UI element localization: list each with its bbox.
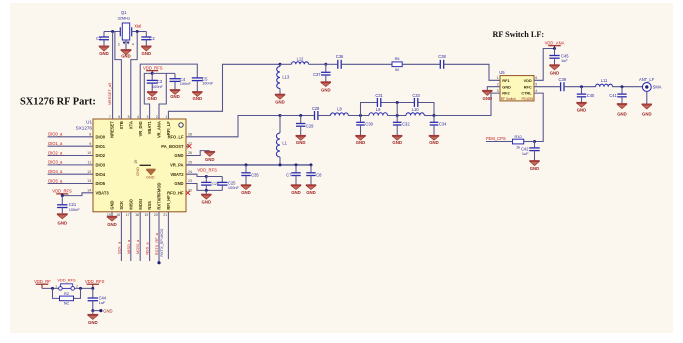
svg-text:C1: C1 [96,36,102,41]
ground for C5 [192,92,202,101]
ground for C7 [291,185,301,195]
ground for C29 [296,136,306,145]
capacitor C21 100nF [57,196,67,214]
wire VBAT3 pin14 [62,193,93,196]
svg-text:1k: 1k [516,145,520,150]
resistor R6 50 ohm [392,62,402,67]
pi filter top rail [361,103,435,116]
value 1uF of C42 [522,151,529,156]
capacitor C25 100nF parallel [206,177,227,191]
inductor L1 choke to VR_PA [276,116,280,166]
svg-text:VR_ANA: VR_ANA [157,121,162,138]
svg-text:17: 17 [126,213,130,217]
wire C36 to R6 [341,63,392,65]
capacitor C37 shunt [321,64,331,82]
svg-text:DIO5_a: DIO5_a [48,178,63,183]
svg-text:SX1276 RF Part:: SX1276 RF Part: [20,97,96,108]
svg-text:18: 18 [135,213,139,217]
svg-text:VR_DIG: VR_DIG [138,121,143,136]
svg-text:RF Switch: RF Switch [501,97,516,101]
ground for C3 [147,92,157,101]
designator L10 [412,107,420,112]
U1 exposed pad pin 29 GND [134,160,155,180]
wire L1 junction to C29 [280,115,315,117]
svg-text:DIO3: DIO3 [96,162,106,167]
net label DIO5_a wire [48,178,93,183]
net label DIO3_a wire [48,160,93,165]
svg-text:100nF: 100nF [69,207,81,212]
svg-text:21: 21 [163,213,167,217]
value 100nF of C3 [152,84,164,89]
svg-text:GND: GND [58,220,68,225]
svg-text:1: 1 [55,284,57,288]
U1 bottom pin names [110,182,171,209]
connector ANT_LF SMA [642,83,651,92]
value 100nF of C5 [202,80,214,85]
wire C38 to RF switch RF1 [444,64,500,80]
ground for GND pin15 [107,212,117,227]
designator C40 [587,93,595,98]
designator C4 [180,77,186,82]
designator C3 [157,79,163,84]
resistor R10 1k [503,139,535,144]
node decoupling ground junction [205,189,208,192]
node C21 junction [61,194,64,197]
capacitor C29 shunt [296,116,305,136]
svg-text:RFI_LF: RFI_LF [166,121,171,135]
node C35 junction [245,163,248,166]
wire VDD pin6 to VDD_ANA [534,49,555,81]
capacitor C26 100nF [201,177,211,191]
wire RFC pin5 to C39 [534,86,561,88]
value 32MHz [117,15,130,20]
wire VR_ANA pin2 jog up to rail [159,73,166,119]
svg-text:C33: C33 [412,93,420,98]
jumper pin numbers 1 2 [55,284,78,288]
U1 top pin names [110,120,171,138]
ground for C35 [241,185,251,195]
ground for C45 [549,65,559,75]
svg-text:L12: L12 [297,57,305,62]
wire MOSI pin18 [139,212,141,261]
svg-text:GND: GND [107,222,117,227]
capacitor C34 shunt [430,116,439,136]
svg-text:GND: GND [88,320,98,325]
wire crystal right to C2 [132,31,147,33]
svg-text:VDD: VDD [523,78,531,83]
svg-text:26: 26 [188,151,192,155]
designator Q1 [121,10,127,15]
svg-text:23: 23 [188,179,192,183]
designator L13 [282,75,290,80]
resistor R2 NC parallel [53,288,81,300]
port RXTX_SP-MOD rotated [159,229,164,257]
svg-text:ANT_LF: ANT_LF [639,77,655,82]
svg-text:C7: C7 [286,173,292,178]
power port VDD_RF [34,279,51,288]
svg-text:GND: GND [642,112,652,117]
no connect X on RFO_HF pin22 [186,191,190,195]
svg-text:GND: GND [170,94,180,99]
ground for C42 [529,161,539,171]
wire jumper to VDD_RFS node [75,287,93,289]
net label RXTX_RF_a rotated [154,232,159,255]
net label SCK_a rotated [116,241,121,254]
svg-text:DIO4: DIO4 [96,172,106,177]
svg-text:VDD_RF: VDD_RF [34,279,51,284]
svg-text:C34: C34 [439,122,447,127]
designator C7 [286,173,292,178]
ground for U5 pin2 [482,91,492,101]
svg-text:50: 50 [395,68,399,72]
svg-text:C36: C36 [336,54,344,59]
svg-text:GND: GND [110,200,115,209]
node VBAT2 decoupling junction [205,175,208,178]
capacitor C4 100nF [170,73,181,89]
net label DIO0_a wire [48,132,93,137]
svg-text:GND: GND [502,84,511,89]
node jumper right junction [79,287,82,290]
svg-text:VBAT1: VBAT1 [147,120,152,134]
svg-text:MISO: MISO [128,198,133,209]
node C29 junction [299,114,302,117]
value 1uF of C44 [99,300,106,305]
svg-text:SX1276: SX1276 [76,125,93,130]
svg-text:11: 11 [88,161,92,165]
designator C5 [202,76,208,81]
value 1uF of C45 [561,58,568,63]
value 50 of R6 [395,68,399,72]
designator L11 [601,78,608,83]
U1 left pin names [96,134,110,195]
svg-text:NC: NC [64,301,70,306]
designator C44 [99,295,107,300]
designator C2 [149,36,155,41]
designator C34 [439,122,447,127]
wire VDD_RF to jumper [42,287,59,289]
node rail junction [396,101,399,104]
svg-text:DIO0: DIO0 [96,134,106,139]
svg-text:GND: GND [174,153,183,158]
node crystal right / XTA junction [136,30,139,33]
power port VDD_RFS output [85,279,105,288]
svg-text:SCK: SCK [119,201,124,210]
svg-text:VDD_RFS: VDD_RFS [197,168,217,173]
designator L9 [376,107,381,112]
port GND [93,308,113,313]
svg-text:28: 28 [188,133,192,137]
svg-text:NRESET: NRESET [110,121,115,138]
U1 top pin numbers [109,115,167,119]
svg-text:L1: L1 [282,141,287,146]
wire VR_PA pin25 line [186,164,311,166]
capacitor C41 shunt [617,87,626,104]
wire crystal right down to XTA pin5 [131,32,137,120]
svg-text:DIO1_a: DIO1_a [48,141,63,146]
value 100nF of C25 [228,185,240,190]
svg-text:C40: C40 [587,93,595,98]
wire C28 to L8 [318,115,331,117]
svg-text:RFI_HF: RFI_HF [166,195,171,210]
designator C30 [365,122,373,127]
svg-text:GND: GND [577,107,587,112]
node C8 junction [310,163,313,166]
svg-text:DIO3_a: DIO3_a [48,160,63,165]
svg-text:GND: GND [392,140,402,145]
designator C35 [251,173,259,178]
capacitor C32 shunt [393,116,402,136]
svg-text:25: 25 [188,161,192,165]
ground for C44 [87,311,98,325]
ground for L13 [275,94,285,104]
ground for C40 [576,103,586,113]
U5 right pin names VDD RFC CTRL [521,78,532,96]
wire RFI_HF pin21 [167,212,169,259]
svg-text:NSS: NSS [147,201,152,210]
value SX1276 [76,125,93,130]
svg-text:20: 20 [154,213,158,217]
power port VDD_ANA [545,40,565,48]
designator C39 [559,77,567,82]
svg-text:DIO1: DIO1 [96,144,106,149]
svg-text:29: 29 [134,160,138,164]
svg-text:R2: R2 [64,291,69,296]
IC U1 SX1276 body [93,119,186,212]
svg-text:100nF: 100nF [180,81,192,86]
svg-text:7: 7 [109,115,111,119]
ground for pin26 [204,152,215,162]
svg-text:C32: C32 [402,122,410,127]
inductor L8 series [330,113,348,116]
power port VDD_RFS near VBAT1 [143,66,163,74]
svg-text:VDD_RFS: VDD_RFS [57,278,76,283]
capacitor C44 1uF [88,288,98,310]
svg-text:VDD_RFS: VDD_RFS [143,66,163,71]
svg-text:DIO5: DIO5 [96,181,106,186]
svg-text:L10: L10 [412,107,420,112]
wire R6 to C38 [402,63,440,65]
svg-text:2: 2 [76,284,78,288]
svg-text:GND: GND [321,88,331,93]
svg-text:GND: GND [530,166,540,171]
svg-text:13: 13 [87,179,91,183]
svg-text:24: 24 [188,170,192,174]
wire RFO_LF pin28 to TX chain [186,116,280,137]
svg-text:DIO2: DIO2 [96,153,106,158]
U1 right pin names [161,134,184,195]
svg-text:Xtal: Xtal [134,24,141,29]
wire GND pin23 to decoupling ground [186,184,206,191]
svg-text:R6: R6 [395,57,400,61]
svg-text:MISO_a: MISO_a [126,239,131,254]
wire L10 to C34 node [424,115,434,117]
wire GND pin2 of U5 [487,87,500,91]
svg-text:2: 2 [156,115,158,119]
wire crystal left down to XTB pin6 [115,32,122,120]
svg-text:RF2: RF2 [502,91,510,96]
svg-text:10: 10 [87,151,91,155]
svg-text:GND: GND [135,167,140,176]
crystal Q1 32MHz [120,23,131,40]
svg-text:3: 3 [497,89,499,93]
designator R10 [515,134,523,139]
wire C39 to L11 [564,86,596,88]
svg-text:RFC: RFC [524,84,532,89]
svg-text:C8: C8 [316,173,322,178]
designator L12 [297,57,305,62]
svg-text:GND: GND [142,51,152,56]
designator C21 [69,202,77,207]
wire MISO pin17 [130,212,132,261]
capacitor C5 100nF [192,78,203,92]
power port VDD_RFS at VBAT3 [52,189,72,196]
svg-text:C29: C29 [306,123,314,128]
svg-text:R10: R10 [515,134,523,139]
wire RFI_LF pin1 step up to RX chain [168,64,280,119]
ground for C26 C25 [201,190,211,204]
svg-text:VR_PA: VR_PA [170,162,183,167]
designator C29 [306,123,314,128]
net label DIO2_a wire [48,150,93,155]
svg-text:GND: GND [193,96,203,101]
capacitor C33 series on rail [414,98,417,107]
svg-text:RFO_HF: RFO_HF [167,190,184,195]
svg-text:C39: C39 [559,77,567,82]
svg-text:RF Switch LF:: RF Switch LF: [493,30,545,39]
svg-text:VDD_ANA: VDD_ANA [545,40,565,45]
net label NSS_a rotated [145,242,150,255]
capacitor C8 shunt [306,165,315,185]
svg-text:3: 3 [146,115,148,119]
svg-text:GND: GND [147,96,157,101]
svg-text:5: 5 [128,115,130,119]
inductor L12 series [280,62,324,65]
wire RXTX pin20 with port [157,212,160,265]
svg-text:100nF: 100nF [228,185,240,190]
capacitor C3 100nF [147,73,158,91]
svg-text:VDD_RFS: VDD_RFS [52,189,72,194]
designator R6 [395,57,400,61]
wire NSS pin19 [149,212,151,261]
svg-text:CTRL: CTRL [521,91,532,96]
svg-text:SCK_a: SCK_a [116,241,121,254]
svg-text:100nF: 100nF [152,84,164,89]
designator L1 [282,141,287,146]
svg-text:VBAT3: VBAT3 [96,190,110,195]
ground for C4 [170,90,180,99]
svg-text:PA_BOOST: PA_BOOST [161,144,184,149]
node C40 junction [580,85,583,88]
svg-text:RFO_LF: RFO_LF [168,134,184,139]
jumper VDD_RFS select [59,284,75,290]
designator U1 [86,119,92,124]
capacitor C31 series on rail [377,98,380,107]
svg-text:GND: GND [306,190,316,195]
inductor L9 series [369,113,388,116]
svg-text:C30: C30 [365,122,373,127]
wire GND pin26 to ground [186,151,210,156]
ground for C30 [355,136,365,145]
no connect X on PA_BOOST pin27 [186,144,191,148]
IC U5 PE4259 RF switch body [500,76,534,101]
capacitor C28 series [315,111,318,120]
net label VDD_RFS at VBAT2 [197,168,217,173]
designator C37 [313,72,321,77]
svg-text:2: 2 [118,43,120,47]
svg-text:GND: GND [296,140,306,145]
wire crystal left to C1 [104,31,120,33]
value NC of R2 [64,301,70,306]
svg-text:32MHz: 32MHz [117,15,130,20]
capacitor C40 shunt [577,87,586,103]
designator C41 [609,93,617,98]
net label NRESET_a5 rotated [107,83,112,105]
value 100nF of C4 [180,81,192,86]
svg-text:NSS_a: NSS_a [145,242,150,255]
node CTRL junction [533,140,536,143]
svg-text:2: 2 [497,83,499,87]
svg-text:1uF: 1uF [561,58,568,63]
node L13 junction [279,63,282,66]
ground for C32 [392,136,402,145]
wire TX chain to RF switch RF2 [434,93,500,115]
svg-text:L8: L8 [337,107,342,112]
svg-text:GND: GND [617,112,627,117]
svg-text:FEM_CPS: FEM_CPS [486,136,506,141]
wire VDD_RFS rail to C4 [152,72,175,74]
svg-text:RXTX/RFMOD: RXTX/RFMOD [157,182,162,209]
designator C28 [312,106,320,111]
svg-text:C41: C41 [609,93,617,98]
svg-text:GND: GND [121,54,131,59]
jumper label VDD_RFS [57,278,76,283]
crystal case pins 2 and 4 [118,40,134,50]
svg-text:DIO0_a: DIO0_a [48,132,63,137]
inductor L10 series [406,113,424,116]
svg-text:14: 14 [87,189,91,193]
svg-text:1uF: 1uF [522,151,529,156]
svg-text:9: 9 [89,142,91,146]
wire SMA shield to ground [646,91,648,104]
svg-text:MOSI: MOSI [138,199,143,209]
svg-text:SMA: SMA [653,85,662,90]
svg-text:8: 8 [89,133,91,137]
node C37 junction [324,63,327,66]
wire L11 to antenna [613,86,643,88]
U5 pin numbers right [535,76,537,93]
node VDD_RFS junction [151,72,154,75]
capacitor C1 [99,32,109,47]
ground for C34 [429,136,439,145]
svg-text:1uF: 1uF [99,300,106,305]
net label FEM_CPS [486,136,506,141]
node L1 bottom junction [279,163,282,166]
designator C45 [561,53,569,58]
title SX1276 RF Part [20,97,96,108]
svg-text:C35: C35 [251,173,259,178]
designator L8 [337,107,342,112]
value 1k of R10 [516,145,520,150]
svg-text:GND: GND [291,190,301,195]
node C41 junction [621,85,624,88]
capacitor C35 shunt [241,165,250,185]
svg-text:12: 12 [87,170,91,174]
wire CTRL pin4 down to R10 [534,93,543,141]
inductor L11 series [596,84,613,87]
wire NRESET pin7 up to crystal area [112,32,114,120]
svg-text:C38: C38 [438,54,446,59]
net label MOSI_a rotated [135,239,140,254]
